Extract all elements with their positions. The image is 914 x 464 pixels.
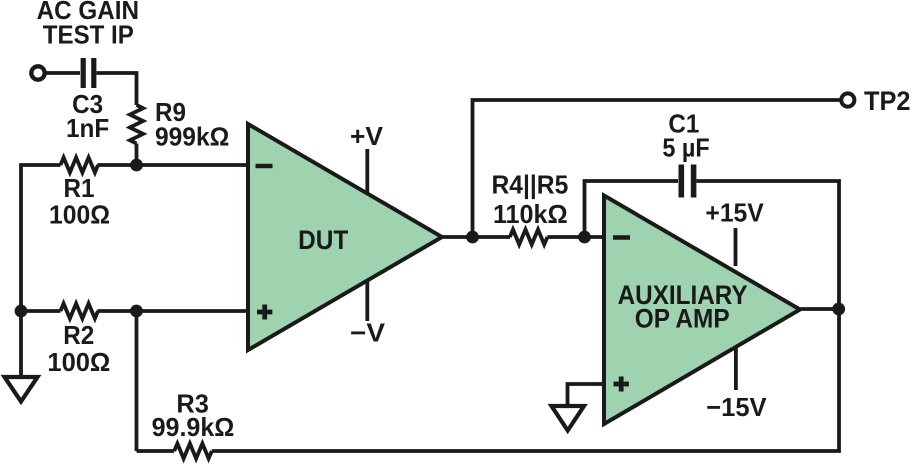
svg-text:OP AMP: OP AMP (635, 304, 730, 334)
aux plus pin (614, 377, 629, 392)
wire input to C3 (45, 71, 80, 75)
wire R2 to DUT plus (98, 309, 249, 313)
wire node A to DUT minus (98, 163, 249, 167)
svg-text:R4||R5: R4||R5 (492, 170, 569, 200)
+15V stub (734, 228, 738, 266)
wire R9 to node A (135, 144, 139, 166)
input terminal (31, 66, 44, 79)
node B junction (130, 305, 143, 318)
op-amp U2 auxiliary (604, 196, 800, 425)
node DUT output junction (466, 231, 479, 244)
wire feedback up (585, 181, 679, 237)
svg-text:+15V: +15V (705, 198, 764, 228)
wire to R4 (473, 235, 511, 239)
svg-text:100Ω: 100Ω (47, 347, 110, 377)
minusV stub (365, 281, 369, 322)
minus15V stub (734, 347, 738, 390)
svg-text:R2: R2 (63, 320, 94, 350)
svg-text:100Ω: 100Ω (49, 200, 110, 230)
node rail junction (15, 305, 28, 318)
capacitor C1 (681, 165, 693, 198)
svg-text:TP2: TP2 (864, 86, 911, 116)
wire R4 to aux minus (547, 235, 604, 239)
capacitor C3 (83, 58, 94, 88)
wire R3 to node B column (137, 449, 175, 453)
svg-text:−15V: −15V (706, 392, 767, 422)
svg-text:TEST IP: TEST IP (43, 20, 134, 50)
svg-text:1nF: 1nF (66, 113, 109, 143)
aux minus pin (613, 235, 630, 239)
resistor R2 (61, 304, 99, 319)
resistor R4||R5 (510, 230, 548, 245)
wire rail to R2 (21, 309, 61, 313)
wire up to TP2 (473, 100, 841, 237)
node feedback junction (578, 231, 591, 244)
wire C3 to R9 (97, 73, 137, 105)
node A junction (130, 159, 143, 172)
DUT plus pin (257, 305, 272, 320)
resistor R9 (130, 105, 143, 144)
DUT minus pin (256, 164, 273, 168)
svg-text:R1: R1 (64, 173, 95, 203)
svg-text:999kΩ: 999kΩ (155, 122, 229, 152)
svg-text:−V: −V (350, 318, 386, 348)
ground left (5, 377, 38, 402)
+V stub (365, 149, 369, 193)
svg-text:5 µF: 5 µF (662, 133, 709, 163)
wire aux output (800, 307, 839, 311)
node aux output junction (832, 303, 845, 316)
resistor R1 (61, 158, 99, 173)
wire aux plus input (568, 384, 605, 405)
wire DUT output (442, 235, 473, 239)
svg-text:DUT: DUT (298, 225, 349, 255)
wire left rail (21, 165, 61, 311)
wire C1 to right rail to bottom (212, 181, 839, 451)
terminal TP2 (841, 93, 854, 106)
op-amp U1 DUT (248, 124, 442, 350)
wire ground stub (19, 311, 23, 376)
ground aux (552, 406, 585, 431)
svg-text:99.9kΩ: 99.9kΩ (152, 412, 235, 442)
svg-text:110kΩ: 110kΩ (493, 199, 568, 229)
wire node B to bottom (135, 311, 139, 451)
svg-text:+V: +V (350, 121, 384, 151)
resistor R3 (174, 444, 212, 459)
